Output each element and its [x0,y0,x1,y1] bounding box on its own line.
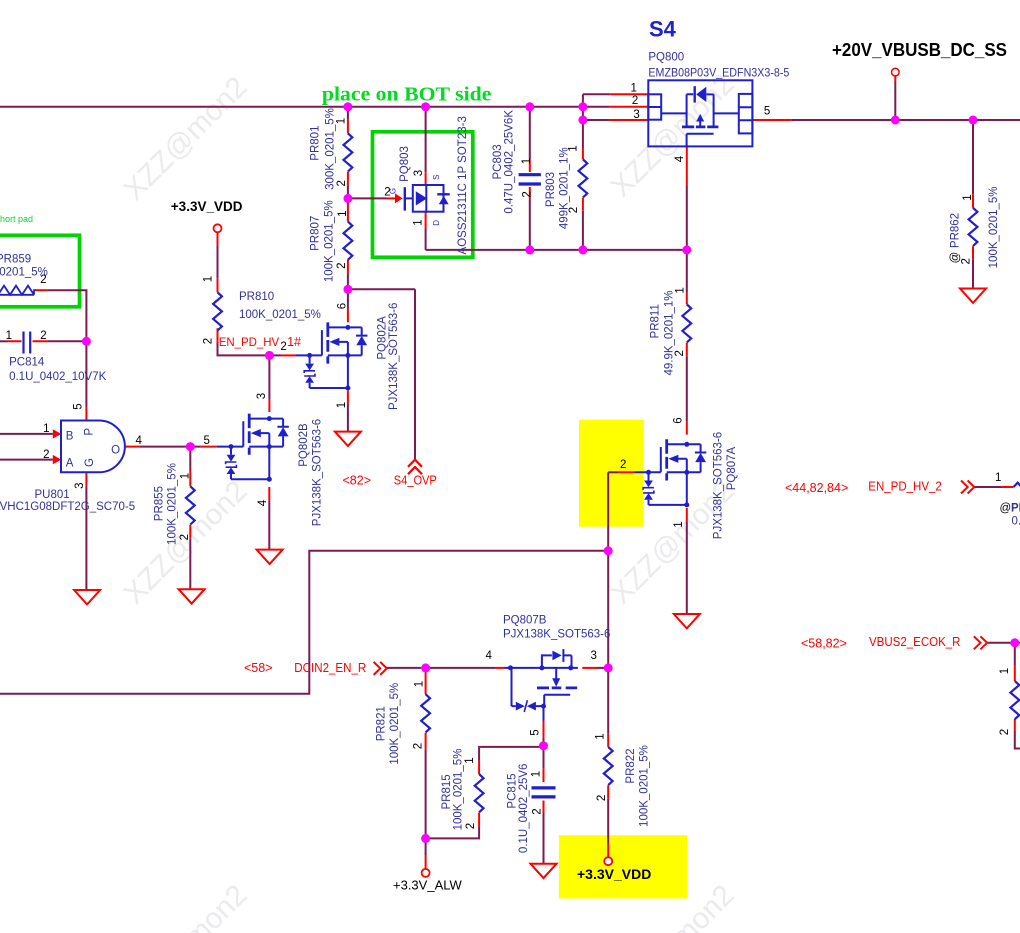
pin stubs PR821 [425,672,427,749]
yellow highlight at +3.3V_VDD bottom [559,835,687,898]
svg-text:AOSS21311C 1P SOT23-3: AOSS21311C 1P SOT23-3 [457,116,469,254]
wire: PQ803 drain column [425,107,427,173]
port chevron EN_PD_HV_2 [961,481,974,494]
svg-text:XZZ@mon2: XZZ@mon2 [117,70,253,206]
wire: DCIN2_EN_R to PQ807B source [426,667,495,669]
wire: mid node down to PQ807B drain node [607,551,609,668]
svg-text:1: 1 [336,118,348,124]
wire: PU801 input B [0,433,53,435]
svg-text:XZZ@mon2: XZZ@mon2 [604,67,740,203]
svg-text:PR821: PR821 [376,706,388,741]
pin stubs PR811 and PQ807A pin6 [686,293,688,435]
junction: gate net / PC803 bottom [525,245,534,254]
watermark XZZ@mon2 tile 1 [117,67,740,933]
svg-text:2: 2 [336,180,348,186]
svg-text:5: 5 [73,403,85,409]
wire: S4_OVP branch [348,289,415,460]
junction: PC814 / PU801 pin5 [82,337,91,346]
svg-text:6: 6 [337,303,349,309]
svg-text:PQ802B: PQ802B [298,423,310,467]
svg-text:EN_PD_HV_2: EN_PD_HV_2 [868,480,942,494]
wire: VBUS2_ECOK_R port to node [988,642,1020,644]
svg-text:3: 3 [74,482,86,488]
junction: +20V rail / PR862 [969,116,978,125]
junction: main rail / source bus [578,102,587,111]
wire: PQ802B ground stem [268,500,270,549]
svg-text:+3.3V_VDD: +3.3V_VDD [577,866,651,882]
pin stub PQ807A source pin1 [686,508,688,522]
svg-text:PJX138K_SOT563-6: PJX138K_SOT563-6 [713,432,725,539]
svg-text:3: 3 [256,393,268,399]
svg-text:XZZ@mon2: XZZ@mon2 [117,878,253,933]
wire: PC815 ground stem [543,813,545,864]
pin stubs PC814 [8,340,47,342]
svg-text:2: 2 [521,191,533,197]
svg-text:1: 1 [673,521,685,527]
resistor PR862 [969,208,978,246]
pin stubs PR810 [217,279,219,342]
pin stub PU801 output pin4 [126,446,140,448]
svg-text:499K_0201_1%: 499K_0201_1% [559,147,571,229]
pin stub PQ802A drain pin6 [347,309,349,322]
svg-text:B: B [66,431,74,443]
ground at PU801 pin3 [74,590,100,604]
wire: PQ807A ground stem [686,522,688,614]
svg-text:DCIN2_EN_R: DCIN2_EN_R [294,661,366,675]
junction: PU801 out / PR855 [186,442,195,451]
pin stub PQ802A source pin1 [347,391,349,404]
svg-text:0.1U_0402_25V6: 0.1U_0402_25V6 [518,764,530,854]
svg-text:2: 2 [674,350,686,356]
resistor PR821 [421,694,430,732]
wire: PR801 bottom to PQ803 gate node [347,185,349,198]
svg-text:2: 2 [961,258,973,264]
svg-text:2: 2 [40,274,46,286]
ground at PC815 [531,864,557,878]
svg-text:4: 4 [257,499,269,506]
svg-text:100K_0201_5%: 100K_0201_5% [167,463,179,545]
power terminal +3.3V_VDD (PR810) [214,224,222,232]
pin stub PQ803 pin3 [425,172,427,185]
svg-text:49.9K_0201_1%: 49.9K_0201_1% [663,290,675,375]
ground at PQ802A source [335,432,361,446]
wire: +3.3V_ALW node to PR815 [426,826,480,838]
resistor PR859 (triangle-wave style, clipped at left edge) [0,286,36,295]
svg-text:PR807: PR807 [310,216,322,251]
junction: PQ807B gate / PR815 / PC815 [539,741,548,750]
svg-text:3: 3 [591,650,597,662]
pin stubs PC803 [529,159,531,199]
svg-text:100K_0201_5%: 100K_0201_5% [639,745,651,827]
pin stub +20V terminal [894,76,896,82]
svg-text:1: 1 [464,757,476,763]
wire: PQ807A gate feed [608,471,618,473]
svg-text:VBUS2_ECOK_R: VBUS2_ECOK_R [869,635,961,649]
wire: PR807 bottom to PQ802A drain node [347,274,349,290]
pin stub +3.3V_VDD terminal [217,232,219,246]
svg-text:PR801: PR801 [310,126,322,161]
port chevron DCIN2_EN_R [374,662,387,675]
svg-text:6: 6 [673,417,685,423]
ground at PQ802B source [257,550,283,564]
svg-text:2: 2 [336,262,348,268]
svg-text:PC814: PC814 [9,357,45,369]
svg-text:<58>: <58> [244,661,273,675]
svg-text:S4: S4 [649,17,677,42]
pin stub PQ807B drain pin3 [582,667,597,669]
pin stub PU801 pin5 [85,407,87,421]
svg-text:2: 2 [40,330,46,342]
svg-text:5: 5 [530,729,542,735]
svg-text:0.1U: 0.1U [1012,516,1020,528]
svg-text:O: O [111,445,120,457]
pin stub PQ807B source pin4 [495,667,505,669]
power terminal +3.3V_VDD (PR822) [604,857,612,865]
resistor PR810 [213,292,222,330]
wire: PR811 column [686,250,688,421]
wire: PQ807B drain to node [597,667,608,669]
resistor PR803 [579,159,588,197]
junction: PQ807B drain node [604,663,613,672]
junction: DCIN2 / PR821 [421,663,430,672]
junction: +3.3V_ALW node [421,834,430,843]
junction: gate net / PQ800 pin4 / PR811 [682,245,691,254]
resistor @PR8 (clipped at right edge) [1014,483,1020,492]
wire: +3.3V_ALW terminal stem [425,838,427,855]
wire: VBUS2 node down to edge resistor [1015,643,1020,749]
svg-text:EMZB08P03V_EDFN3X3-8-5: EMZB08P03V_EDFN3X3-8-5 [648,68,789,80]
wire: +20V_VBUSB_DC_SS rail right of PQ800 pin5 [791,119,1020,121]
wire: main top rail (PQ800 pin2 net) from left edge [0,106,583,108]
pin stub PQ803 gate [386,197,395,199]
svg-text:1: 1 [995,472,1001,484]
pin stub PQ800 pin1 [609,93,648,95]
svg-text:+3.3V_VDD: +3.3V_VDD [171,199,243,214]
wire: PQ802A drain purple [347,289,349,309]
svg-text:1: 1 [6,330,12,342]
svg-text:1: 1 [675,287,687,293]
IC PQ800 EMZB08P03V P-FET power switch [648,80,752,146]
junction: main rail / PR801 [343,102,352,111]
resistor PR855 [186,486,195,524]
svg-text:2: 2 [465,823,477,829]
wire: PQ807A gate vertical to mid node [607,472,609,551]
wire: PC814 left lead [0,340,8,342]
svg-text:2: 2 [999,729,1011,735]
svg-text:4: 4 [674,155,686,162]
svg-text:1: 1 [595,733,607,739]
wire: +3.3V_VDD stem to PR810 [218,246,282,355]
pin stubs PR801 [347,120,349,185]
svg-text:PR822: PR822 [625,748,637,783]
svg-text:1: 1 [43,423,49,435]
junction: main rail / PQ803 drain [421,102,430,111]
wire: PR855 ground stem [189,538,191,589]
pin stubs PC815 [543,768,545,813]
svg-text:1: 1 [413,219,425,225]
svg-text:2: 2 [203,338,215,344]
svg-text:PQ807B: PQ807B [503,614,547,626]
svg-text:1: 1 [567,145,579,151]
pin stubs PR822 [607,733,609,799]
junction: VBUS2 node [1010,638,1019,647]
resistor PR815 [475,774,484,812]
svg-text:PQ800: PQ800 [648,52,684,64]
svg-text:0.1U_0402_10V7K: 0.1U_0402_10V7K [9,371,107,383]
svg-text:0.47U_0402_25V6K: 0.47U_0402_25V6K [503,110,515,214]
svg-text:4: 4 [486,650,493,662]
junction: gate net / PR803 bottom [578,245,587,254]
wire: PR855 top [189,447,191,470]
svg-text:PJX138K_SOT563-6: PJX138K_SOT563-6 [388,303,400,410]
junction: PQ807A gate mid node [604,546,613,555]
wire: PQ800 pin3 row [583,119,610,121]
wire: PQ802A ground stem [347,404,349,432]
svg-text:+20V_VBUSB_DC_SS: +20V_VBUSB_DC_SS [832,39,1007,60]
port chevron VBUS2_ECOK_R [974,636,987,649]
power terminal +20V_VBUSB_DC_SS [892,68,900,76]
svg-text:1: 1 [999,668,1011,674]
pin stubs PR807 [347,198,349,273]
green emphasis box around PR859 [0,235,80,306]
resistor PR811 [682,304,691,342]
svg-text:2: 2 [532,808,544,814]
svg-text:PQ802A: PQ802A [376,316,388,360]
pin stub PQ802B drain pin3 [268,399,270,412]
pin stub PQ800 pin5 [752,119,791,121]
svg-text:2: 2 [568,207,580,213]
power terminal +3.3V_ALW [422,869,430,877]
svg-text:@: @ [1000,503,1012,515]
wire: PR803 bottom to gate net [582,211,584,250]
transistor PQ807B (PJX138K N-FET, rotated) [505,649,578,720]
svg-text:100K_0201_5%: 100K_0201_5% [452,749,464,831]
svg-text:1: 1 [631,83,637,95]
wire: PQ800 source bus vertical at x583 [582,94,584,148]
pin stub PQ802B source pin4 [268,487,270,500]
svg-text:1: 1 [531,771,543,777]
input arrow PU801 pin1 [53,429,62,438]
svg-text:1#: 1# [287,335,301,349]
svg-text:PR862: PR862 [950,213,962,248]
capacitor PC815 [532,788,556,797]
svg-text:2: 2 [412,743,424,749]
junction: EN_PD_HV node [265,351,274,360]
pin stub PQ807B gate pin5 [543,721,545,738]
wire: PR821 bottom to +3.3V_ALW node [425,749,427,838]
svg-text:2: 2 [280,341,286,353]
svg-text:2: 2 [596,795,608,801]
svg-text:100K_0201_5%: 100K_0201_5% [389,683,401,765]
svg-text:2: 2 [632,95,638,107]
resistor PR822 [604,747,613,785]
wire: PC814 right lead to junction [47,340,86,342]
pin stub +3.3V_VDD terminal (bottom) [607,843,609,857]
svg-text:<58,82>: <58,82> [801,637,847,651]
svg-text:2: 2 [43,449,49,461]
resistor PR801 [344,133,353,171]
svg-text:5: 5 [204,435,210,447]
wire: PR859 output to PU801 pin5 column [47,290,86,406]
wire: PR815 top to PQ807B gate node [479,747,543,761]
junction: +20V rail / terminal [891,116,900,125]
svg-text:place on BOT side: place on BOT side [322,83,492,105]
svg-text:G: G [389,188,398,194]
ground at PR855 [179,589,205,603]
wire: mid node to left edge (L-shape) [0,551,608,694]
wire: PU801 ground stem [85,486,87,590]
svg-text:<82>: <82> [343,474,372,488]
svg-text:74AVHC1G08DFT2G_SC70-5: 74AVHC1G08DFT2G_SC70-5 [0,501,135,513]
pin stub PQ800 pin2 [583,106,610,108]
svg-text:A: A [66,458,74,470]
pin stubs PR855 [189,470,191,538]
svg-text:G: G [84,458,96,467]
wire: PR801 top connection [347,107,349,120]
svg-text:short pad: short pad [0,214,33,224]
svg-text:PU801: PU801 [35,489,70,501]
svg-text:PR810: PR810 [239,291,274,303]
svg-text:PC803: PC803 [492,144,504,179]
green emphasis box around PQ803 [373,132,473,257]
transistor PQ803 (AOSS21311C SOT23 FET) [395,185,450,212]
wire: PR822 column [607,668,609,843]
svg-text:2: 2 [620,459,626,471]
svg-text:1: 1 [179,473,191,479]
pin stub edge resistor @PR8 [1001,486,1014,488]
pin stub PQ803 pin1 [425,212,427,229]
junction: PR801/PR807/PQ803 gate [343,194,352,203]
svg-text:2: 2 [179,534,191,540]
svg-text:PC815: PC815 [507,773,519,808]
svg-text:1: 1 [962,194,974,200]
svg-text:PR859: PR859 [0,253,31,265]
pin stub PQ802A gate [281,354,295,356]
wire: PQ800 gate vertical [686,185,688,250]
junction: main rail / PC803 [525,102,534,111]
svg-text:S4_OVP: S4_OVP [394,474,437,488]
pin stubs edge resistor VBUS2 [1014,665,1016,731]
svg-text:PQ803: PQ803 [399,146,411,182]
pin stub PU801 pin3 [85,472,87,486]
svg-text:1: 1 [337,210,349,216]
svg-text:EN_PD_HV: EN_PD_HV [219,335,280,349]
capacitor PC814 [24,332,31,354]
transistor PQ802B (PJX138K N-FET) [217,414,289,482]
wire: PU801 input A [0,459,53,461]
svg-text:3: 3 [633,109,639,121]
svg-text:PR811: PR811 [649,304,661,338]
off-page connector S4_OVP (up chevron) [408,460,422,475]
wire: PU801 output to PQ802B gate node [139,446,201,448]
svg-text:+3.3V_ALW: +3.3V_ALW [393,878,463,893]
pin stubs PR815 [478,761,480,827]
pin stub PQ800 pin4 gate [686,146,688,185]
svg-text:PQ807A: PQ807A [726,446,738,490]
svg-text:100K_0201_5%: 100K_0201_5% [324,200,336,282]
svg-text:PR803: PR803 [545,172,557,207]
svg-text:3: 3 [413,170,425,176]
svg-text:S: S [432,175,441,180]
svg-text:PR815: PR815 [441,774,453,809]
wire: PR862 branch from +20V rail [972,120,974,289]
transistor PQ802A (PJX138K N-FET) [295,322,367,390]
wire: EN_PD_HV_2 port to edge resistor [975,486,1002,488]
junction: PR807 / PQ802A drain / S4_OVP [343,285,352,294]
pin stub PQ807A gate pin2 [618,471,634,473]
svg-text:1: 1 [203,276,215,282]
wire: +20V power symbol stem [894,82,896,120]
wire: PC803 branch [529,107,531,250]
wire: PQ802B drain to EN_PD_HV node [268,355,270,399]
transistor PQ807A (PJX138K N-FET) [634,439,706,507]
svg-text:D: D [432,220,441,226]
svg-text:1: 1 [336,402,348,408]
wire: PQ803 source to bottom rail [425,229,427,250]
wire: PQ803 gate wire [348,197,386,199]
pin stub +3.3V_ALW terminal [425,855,427,869]
svg-text:P: P [83,428,95,436]
svg-text:4: 4 [136,435,143,447]
svg-text:PR86: PR86 [1011,503,1020,515]
svg-text:1: 1 [414,681,426,687]
ground at PQ807A source [674,614,700,628]
pin stub PQ802B gate pin5 [201,446,217,448]
pin stub PR859 pin2 [36,289,47,291]
svg-text:5: 5 [764,106,770,118]
svg-text:PJX138K_SOT563-6: PJX138K_SOT563-6 [311,419,323,526]
svg-text:<44,82,84>: <44,82,84> [785,481,848,495]
yellow highlight at PQ807A gate pin 2 [579,420,643,527]
resistor PR807 [344,222,353,260]
capacitor PC803 [519,175,541,184]
junction: source bus pin3 row [578,116,587,125]
resistor on VBUS2 node at right edge [1010,681,1019,719]
pin stub PQ800 pin3 [609,119,648,121]
wire: PQ807B gate to node [543,737,545,745]
ground at PR862 [960,289,986,303]
wire: PC815 top [543,746,545,769]
wire: DCIN2_EN_R from port chevron [387,667,421,669]
pin stubs PR803 [582,148,584,211]
svg-text:100K_0201_5%: 100K_0201_5% [988,186,1000,268]
svg-text:PR855: PR855 [154,486,166,521]
svg-text:100K_0201_5%: 100K_0201_5% [239,309,321,321]
input arrow PU801 pin2 [53,455,62,464]
IC PU801 AND gate 74AVHC1G08 [61,421,125,473]
wire: PQ800 gate net bottom rail [426,249,687,251]
svg-text:PJX138K_SOT563-6: PJX138K_SOT563-6 [503,628,610,640]
pin stubs PR862 [972,194,974,259]
svg-text:1: 1 [521,158,533,164]
wire: PQ800 pin1 row [583,93,610,95]
